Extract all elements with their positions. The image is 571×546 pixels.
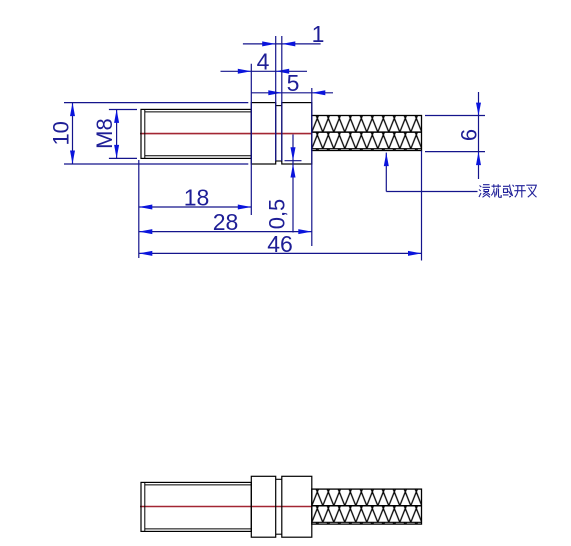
groove top edge [276,105,282,107]
svg-text:0,5: 0,5 [265,199,290,230]
svg-text:6: 6 [457,129,482,141]
leader knurl note [385,153,387,192]
flange [251,103,275,164]
dimension 1 [243,43,321,45]
threaded shaft body [141,109,251,158]
collar section [282,103,312,164]
knurl mid lines [312,131,422,133]
groove edges [276,478,282,480]
flange [251,476,275,537]
extension line knurl right end [421,151,423,261]
svg-text:10: 10 [49,121,74,145]
dimension 5 [251,92,333,94]
knurl body [312,489,422,524]
collar section [282,476,312,537]
centerline (red) [140,133,312,135]
或 [503,185,514,198]
svg-text:28: 28 [213,209,239,235]
extension line groove right [281,36,283,161]
dimension M8 [109,109,137,111]
叉 [526,185,536,197]
thread root line top [145,111,252,113]
thread root line bottom [145,155,252,157]
groove bottom edge [276,160,282,162]
extension line shaft left end [138,160,140,258]
dimension 10 [64,102,248,104]
svg-text:5: 5 [287,70,300,96]
滚 [479,185,490,198]
svg-text:18: 18 [184,185,210,211]
dimension 4 [221,70,308,72]
花 [491,184,501,197]
开 [514,186,526,198]
threaded shaft body [141,482,251,531]
dimension 0,5 [285,160,302,162]
extension line flange left [250,64,252,215]
svg-text:4: 4 [257,49,270,75]
svg-text:M8: M8 [92,118,117,149]
extension line knurl start [311,88,313,246]
shaft chamfer line [144,109,146,158]
dimension 18 [139,206,252,208]
dimension 6 [425,115,485,117]
knurl body [312,116,422,151]
centerline (red) [140,506,313,508]
extension line groove left [275,36,277,161]
svg-text:1: 1 [312,21,325,47]
note text 滚花或开叉 (drawn strokes) [479,184,537,197]
dimension 46 [139,252,422,254]
svg-text:46: 46 [267,231,293,257]
dimension 28 [139,231,312,233]
